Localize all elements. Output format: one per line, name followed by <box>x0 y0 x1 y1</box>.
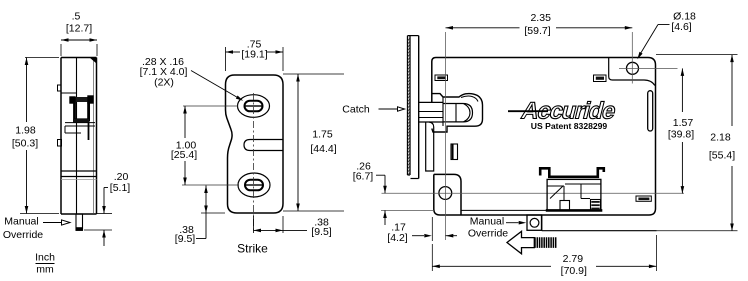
svg-text:2.35: 2.35 <box>530 12 551 24</box>
svg-text:Manual: Manual <box>470 216 504 228</box>
svg-text:[9.5]: [9.5] <box>311 226 332 238</box>
svg-text:[4.2]: [4.2] <box>387 232 408 244</box>
svg-text:[4.6]: [4.6] <box>671 21 692 33</box>
svg-text:[39.8]: [39.8] <box>668 129 694 141</box>
svg-text:.5: .5 <box>72 11 81 23</box>
svg-text:2.79: 2.79 <box>563 253 584 265</box>
svg-text:[44.4]: [44.4] <box>310 143 336 155</box>
svg-text:1.75: 1.75 <box>312 129 333 141</box>
svg-text:[55.4]: [55.4] <box>709 150 735 162</box>
svg-text:Inch: Inch <box>35 252 55 264</box>
svg-text:US Patent 8328299: US Patent 8328299 <box>531 121 608 131</box>
svg-text:[59.7]: [59.7] <box>524 25 550 37</box>
svg-text:Strike: Strike <box>237 242 268 256</box>
svg-text:[70.9]: [70.9] <box>561 265 587 277</box>
svg-text:Override: Override <box>3 229 43 241</box>
svg-text:1.57: 1.57 <box>673 117 694 129</box>
svg-text:2.18: 2.18 <box>710 132 731 144</box>
svg-text:mm: mm <box>36 264 54 276</box>
svg-text:[50.3]: [50.3] <box>12 138 38 150</box>
svg-text:Manual: Manual <box>4 216 38 228</box>
svg-text:[12.7]: [12.7] <box>66 23 92 35</box>
svg-text:Override: Override <box>468 227 508 239</box>
svg-text:[19.1]: [19.1] <box>241 49 267 61</box>
svg-text:[5.1]: [5.1] <box>110 182 131 194</box>
svg-text:1.98: 1.98 <box>15 125 36 137</box>
svg-text:[25.4]: [25.4] <box>171 149 197 161</box>
svg-text:Catch: Catch <box>342 104 370 116</box>
svg-text:[9.5]: [9.5] <box>175 233 196 245</box>
svg-text:[6.7]: [6.7] <box>353 171 374 183</box>
svg-text:(2X): (2X) <box>154 77 174 89</box>
